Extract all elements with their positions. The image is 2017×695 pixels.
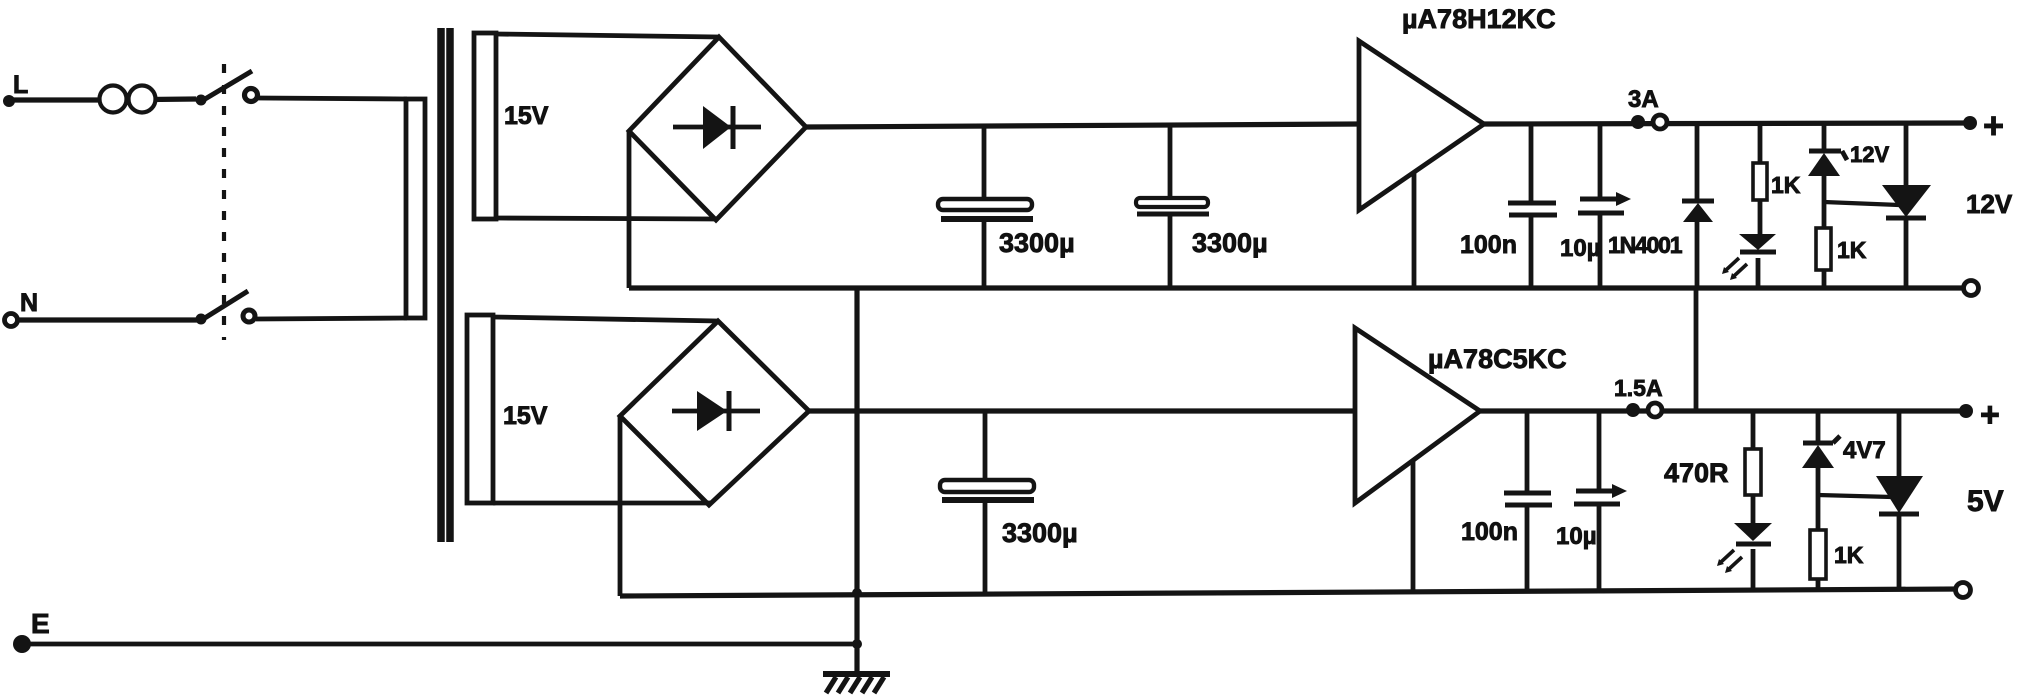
- svg-text:L: L: [13, 71, 28, 99]
- svg-text:15V: 15V: [504, 102, 549, 130]
- svg-text:100n: 100n: [1461, 518, 1518, 546]
- node +12V terminal: [1963, 105, 2004, 146]
- capacitor C3 100n: [1508, 124, 1557, 288]
- svg-text:µA78H12KC: µA78H12KC: [1402, 4, 1556, 34]
- zener D3 12V: [1808, 124, 1847, 228]
- capacitor C2 3300u: [1136, 126, 1209, 288]
- wire U1 output rail: [1484, 123, 1968, 124]
- wire secondary1 bottom to bridge: [496, 218, 715, 219]
- thyristor Q2 crowbar: [1876, 411, 1923, 590]
- svg-text:µA78C5KC: µA78C5KC: [1428, 344, 1567, 374]
- node L terminal: [3, 71, 28, 107]
- capacitor C5 3300u: [940, 411, 1034, 595]
- resistor R4 1K: [1810, 530, 1826, 591]
- svg-text:470R: 470R: [1664, 458, 1729, 488]
- diode D1 1N4001: [1682, 124, 1714, 288]
- svg-text:3300µ: 3300µ: [1002, 518, 1078, 548]
- wire switch to primary bottom: [256, 318, 407, 319]
- svg-text:100n: 100n: [1460, 231, 1517, 259]
- svg-text:1.5A: 1.5A: [1614, 375, 1663, 401]
- wire secondary1 top to bridge: [496, 34, 719, 37]
- transformer T1 core: [441, 28, 450, 542]
- svg-text:15V: 15V: [503, 402, 548, 430]
- wire BR1 - down: [627, 131, 632, 288]
- zener D5 4V7: [1802, 411, 1840, 530]
- node +5V terminal: [1959, 396, 2000, 434]
- resistor R1 1K: [1753, 124, 1767, 236]
- svg-text:1K: 1K: [1837, 237, 1867, 263]
- svg-text:12V: 12V: [1850, 142, 1889, 167]
- svg-text:3A: 3A: [1628, 86, 1659, 113]
- svg-text:10µ: 10µ: [1556, 523, 1597, 550]
- capacitor C6 100n: [1504, 411, 1552, 592]
- node E terminal: [13, 608, 50, 653]
- switch S1b pole N: [196, 291, 256, 325]
- svg-text:3300µ: 3300µ: [1192, 228, 1268, 258]
- svg-text:1K: 1K: [1834, 542, 1864, 568]
- transformer T1 secondary 2: [467, 315, 493, 503]
- regulator U1 uA78H12KC: [1359, 41, 1484, 210]
- svg-text:1K: 1K: [1771, 172, 1801, 198]
- wire U2 ground pin: [1411, 460, 1416, 592]
- wire BR2 + rail to regulator: [809, 408, 1356, 413]
- node N terminal: [5, 289, 39, 327]
- wire U1 ground pin: [1412, 172, 1417, 288]
- svg-text:+: +: [1980, 396, 2000, 434]
- svg-text:12V: 12V: [1966, 189, 2013, 219]
- fuse F3 1.5A: [1626, 403, 1662, 417]
- wire top 0V rail: [629, 285, 1973, 290]
- transformer T1 secondary 1: [474, 33, 496, 219]
- svg-text:4V7: 4V7: [1843, 437, 1886, 464]
- node 0V terminal bottom: [1956, 583, 1971, 598]
- wire top 0V to bottom +5V rail: [1694, 288, 1699, 411]
- wire zener node to SCR gate 2: [1818, 495, 1892, 497]
- fuse F2 3A: [1631, 115, 1667, 129]
- wire bottom 0V rail: [620, 589, 1961, 596]
- node junction earth / bottom 0V: [852, 588, 862, 598]
- resistor R2 1K: [1816, 228, 1831, 288]
- wire BR1 + output rail to regulator: [806, 124, 1360, 127]
- thyristor Q1 crowbar: [1882, 124, 1931, 288]
- svg-text:10µ: 10µ: [1560, 235, 1601, 262]
- capacitor C1 3300u: [938, 126, 1033, 288]
- node junction earth / E wire: [852, 639, 862, 649]
- svg-text:5V: 5V: [1967, 485, 2004, 518]
- wire U2 output rail: [1480, 408, 1963, 413]
- LED D2: [1722, 234, 1776, 288]
- svg-text:E: E: [31, 608, 50, 639]
- wire N to switch: [18, 317, 197, 322]
- node 0V terminal top: [1964, 281, 1979, 296]
- ground: [823, 674, 890, 693]
- wire L to fuse: [9, 97, 100, 102]
- LED D4: [1717, 523, 1772, 591]
- wire secondary2 top to bridge: [493, 317, 718, 321]
- svg-text:3300µ: 3300µ: [999, 228, 1075, 258]
- capacitor C7 10u: [1574, 411, 1627, 592]
- bridge rectifier BR2: [620, 321, 809, 505]
- wire zener node to SCR gate: [1824, 202, 1899, 205]
- svg-text:1N4001: 1N4001: [1608, 232, 1683, 258]
- svg-text:+: +: [1983, 105, 2004, 146]
- wire secondary2 bottom to bridge: [493, 501, 711, 506]
- fuse FS1 mains: [100, 86, 197, 113]
- wire BR2 - down: [618, 416, 623, 596]
- transformer T1 primary winding: [406, 99, 425, 318]
- capacitor C4 10u: [1578, 124, 1631, 288]
- regulator U2 uA78C5KC: [1355, 328, 1480, 503]
- wire E to earth: [15, 642, 857, 647]
- svg-text:N: N: [20, 289, 38, 317]
- resistor R3 470R: [1745, 411, 1761, 525]
- switch S1a pole L: [196, 71, 258, 106]
- wire switch to primary top: [258, 98, 407, 99]
- wire earth vertical: [854, 288, 859, 677]
- bridge rectifier BR1: [629, 37, 806, 220]
- switch link dashed: [222, 64, 226, 340]
